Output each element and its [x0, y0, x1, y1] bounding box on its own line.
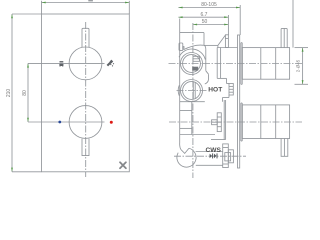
dim 80-105 line — [178, 7, 240, 9]
svg-text:80: 80 — [22, 90, 28, 96]
cartridge left vertical — [216, 48, 218, 79]
plate — [42, 14, 130, 172]
body top at cartridge — [217, 47, 237, 49]
shelf step vertical — [217, 45, 219, 47]
HOT port slot — [192, 82, 194, 99]
elbow neck curve — [180, 144, 182, 150]
dim 210 arrow bottom — [11, 168, 13, 172]
housing bottom — [211, 139, 226, 141]
top port boss arc — [179, 49, 205, 60]
svg-text:50: 50 — [202, 19, 208, 25]
HOT port outer circle — [181, 80, 203, 102]
screw flange stack — [217, 113, 221, 132]
top cylinder — [242, 48, 289, 80]
top port dark notch — [192, 67, 198, 71]
dim width clipped label — [88, 0, 93, 1]
elbow notch — [181, 148, 189, 153]
bottom cylinder dividers — [260, 105, 262, 139]
slant to tab — [218, 35, 226, 45]
screw shaft — [212, 120, 218, 125]
screw housing verticals — [223, 100, 225, 140]
HOT boss arc sliver — [178, 85, 179, 95]
X logo — [120, 162, 126, 168]
flange bottom cylinder — [240, 103, 242, 141]
CWS fitting nut — [228, 150, 233, 163]
knob top arc — [183, 45, 204, 50]
top knob stem — [82, 28, 89, 47]
body shelf — [204, 44, 218, 46]
mid body horizontals — [180, 110, 192, 112]
top cylinder dividers — [260, 48, 262, 80]
dim 2-045 tick bottom — [295, 83, 309, 85]
clamp tab — [179, 43, 183, 51]
wall line above top cylinder — [292, 0, 294, 48]
flange top cylinder — [240, 43, 242, 85]
svg-text:2-Ø45: 2-Ø45 — [296, 59, 301, 72]
top bracket tab midline — [225, 37, 228, 39]
svg-text:6.7: 6.7 — [201, 12, 208, 18]
dim 2-045 tick top — [295, 47, 309, 49]
dim 80 arrow bottom — [27, 118, 29, 122]
bottom knob stem — [82, 139, 89, 156]
HOT fitting top — [227, 83, 230, 85]
centerline bottom cylinder — [169, 121, 302, 123]
svg-text:HOT: HOT — [208, 86, 222, 93]
CWS fitting inner square — [225, 153, 231, 161]
bottom pipe stub — [281, 139, 288, 157]
dim width ext right — [128, 1, 130, 14]
top port inner circle — [183, 55, 201, 73]
dim ext line x240.2 — [239, 5, 241, 35]
HOT fitting bottom step — [228, 95, 230, 98]
cartridge right vertical — [220, 48, 222, 79]
bottom cylinder — [242, 105, 289, 139]
svg-text:80-105: 80-105 — [201, 2, 217, 8]
HOT fitting ladder — [229, 84, 233, 96]
HOT port inner circle — [183, 82, 201, 100]
dim 67 line — [178, 16, 228, 18]
top port inner rect line — [193, 58, 200, 60]
inlet pipe top — [196, 151, 223, 153]
bath icon left of top knob — [59, 61, 63, 67]
dim 50 line — [193, 24, 229, 26]
centerline inlet — [174, 155, 246, 157]
dim width arrow right — [125, 2, 129, 4]
bottom knob centerline horizontal — [28, 121, 105, 123]
flow arrow 1 — [210, 153, 218, 158]
dim 210 arrow top — [11, 14, 13, 18]
vertical centerline body — [192, 23, 194, 178]
boss step slant — [206, 71, 209, 74]
dim 210 ext bottom — [12, 171, 42, 173]
CWS fitting body — [223, 144, 229, 168]
dim width arrow left — [42, 2, 46, 4]
top pipe stub — [281, 28, 287, 47]
top knob centerline horizontal — [28, 62, 105, 64]
inlet pipe bottom — [196, 164, 223, 166]
boss fillet — [204, 45, 206, 49]
inlet elbow circle — [177, 148, 196, 167]
dim 80 line — [27, 63, 29, 122]
top knob circle — [69, 47, 102, 80]
wall plate — [238, 35, 240, 168]
handle right vertical — [203, 33, 205, 46]
top port inner rect — [193, 56, 200, 61]
centerline top port — [169, 63, 303, 65]
HOT boss bottom — [180, 101, 205, 103]
vertical centerline — [85, 22, 87, 177]
centerline HOT port — [177, 90, 207, 92]
svg-text:CWS: CWS — [206, 147, 222, 154]
mid body vertical — [191, 102, 193, 135]
boss right edge lower — [208, 74, 210, 79]
cartridge bottom — [217, 77, 226, 79]
boss right edge — [205, 49, 207, 71]
bottom knob circle — [69, 106, 102, 139]
dim 210 ext top — [12, 13, 42, 15]
boss curve to HOT — [205, 80, 209, 85]
cartridge step down — [226, 78, 228, 83]
red dot — [110, 121, 113, 124]
clamp tab nub — [183, 47, 184, 49]
svg-text:210: 210 — [6, 89, 12, 98]
dim width top line — [42, 2, 130, 4]
handle top edge — [180, 32, 204, 34]
dim 2-045 vertical line — [302, 48, 304, 85]
dim width ext left — [41, 1, 43, 14]
top bracket tab — [225, 35, 228, 48]
top port outer circle — [181, 53, 203, 75]
blue dot — [58, 121, 61, 124]
body left edge — [179, 19, 181, 144]
shower icon right of top knob — [107, 60, 115, 67]
dim 80 arrow top — [27, 63, 29, 67]
dim ext line x228.4 — [227, 15, 229, 35]
dim 210 line — [11, 14, 13, 172]
